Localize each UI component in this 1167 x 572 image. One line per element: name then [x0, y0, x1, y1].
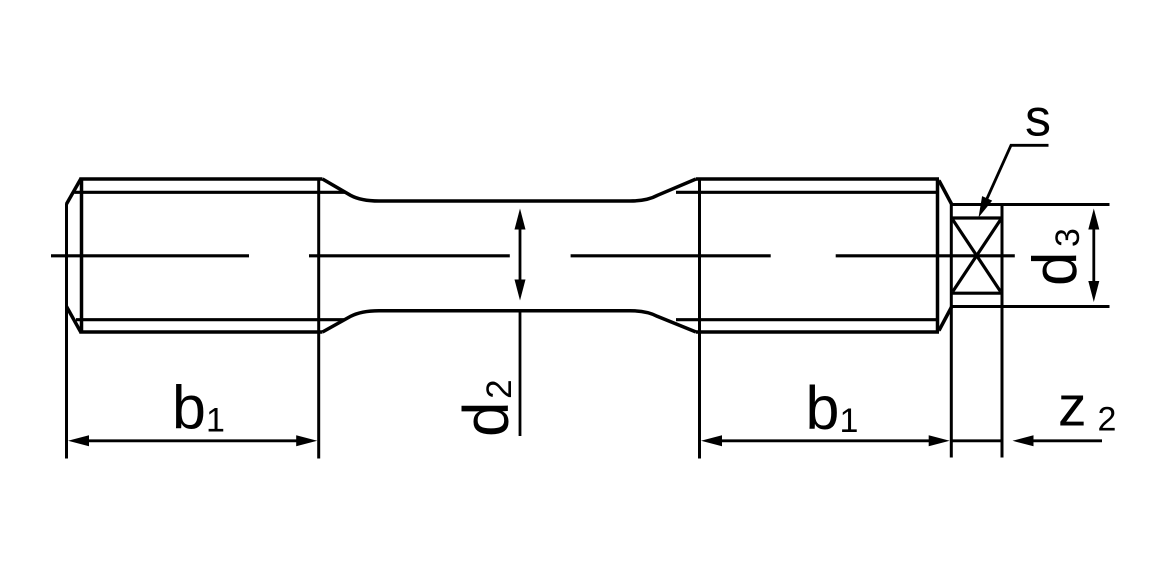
- reduced shank profile: [323, 179, 697, 332]
- centerline: [51, 254, 1015, 257]
- thread root lines left: [75, 192, 346, 319]
- stud body outline: left threaded section: [67, 179, 323, 332]
- square end boss with flats: [951, 218, 1002, 293]
- dimension b1 right: [716, 439, 934, 442]
- dimension d3 double arrow: [1092, 225, 1095, 286]
- dimension b1 left: [84, 439, 302, 442]
- right threaded section: [696, 179, 952, 332]
- dimension d2 double arrow: [519, 225, 522, 436]
- leader line for s: [983, 145, 1049, 207]
- thread root lines right: [676, 192, 939, 319]
- dimension z2 arrow and tail: [1027, 439, 1102, 442]
- dimension line between z2 extension lines: [951, 439, 1002, 442]
- svg-text:s: s: [1025, 89, 1051, 147]
- extension lines: [67, 179, 1110, 459]
